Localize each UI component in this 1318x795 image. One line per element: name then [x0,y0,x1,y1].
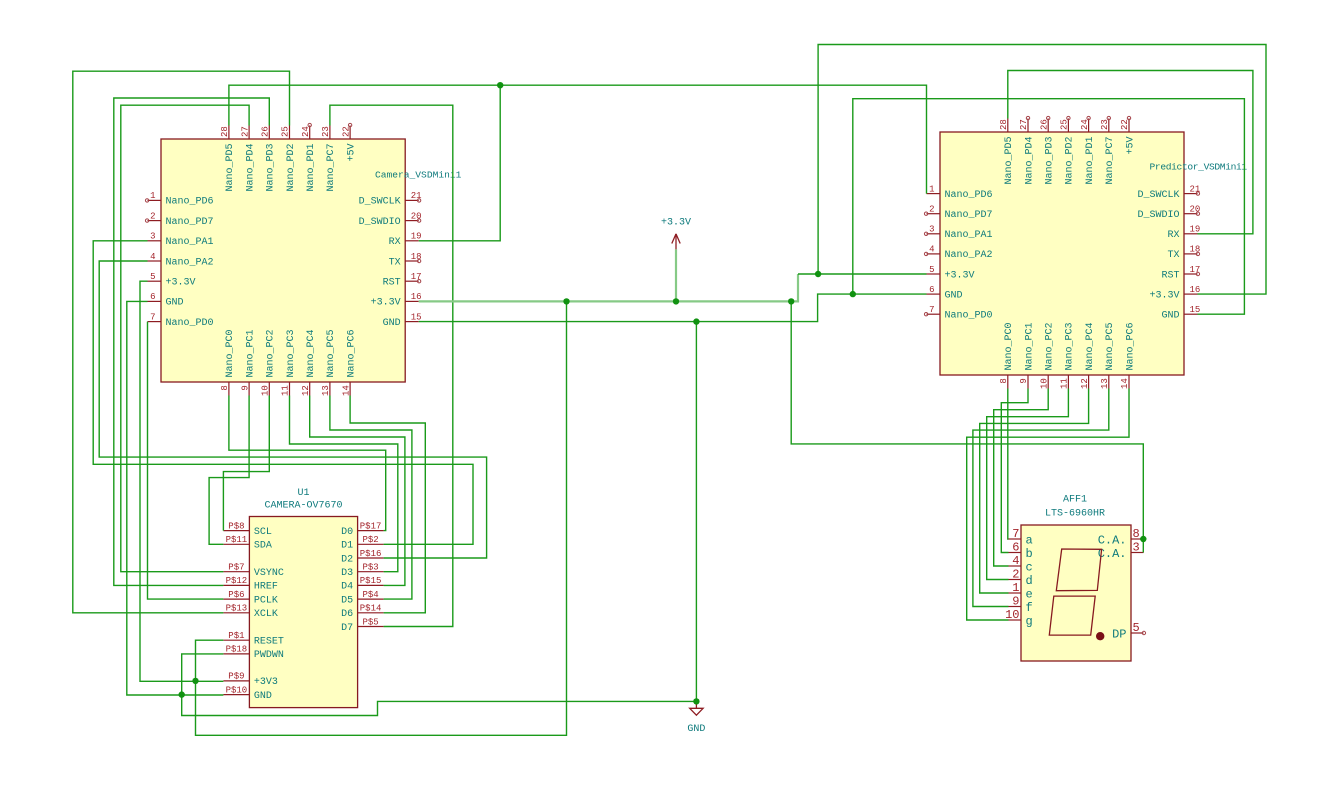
svg-text:25: 25 [1060,119,1070,130]
svg-text:+3.3V: +3.3V [371,298,401,309]
svg-text:3: 3 [929,225,934,235]
svg-text:D_SWDIO: D_SWDIO [359,217,401,228]
svg-text:g: g [1026,614,1033,628]
svg-text:Nano_PD5: Nano_PD5 [225,144,236,192]
svg-text:Nano_PD1: Nano_PD1 [1085,137,1096,185]
svg-text:P$2: P$2 [362,535,378,545]
svg-text:TX: TX [1167,250,1179,261]
svg-text:4: 4 [1012,554,1019,568]
svg-text:18: 18 [1190,245,1201,255]
svg-text:P$3: P$3 [362,563,378,573]
svg-text:Nano_PC0: Nano_PC0 [225,329,236,377]
svg-text:C.A.: C.A. [1098,533,1127,547]
svg-text:TX: TX [389,257,401,268]
svg-text:Nano_PD2: Nano_PD2 [286,144,297,192]
svg-text:8: 8 [999,378,1009,383]
svg-text:Camera_VSDMini1: Camera_VSDMini1 [375,170,462,181]
svg-text:GND: GND [1161,311,1179,322]
svg-text:PWDWN: PWDWN [254,650,284,661]
svg-text:P$5: P$5 [362,617,378,627]
svg-text:Nano_PD5: Nano_PD5 [1004,137,1015,185]
svg-text:RST: RST [383,278,401,289]
svg-text:Predictor_VSDMini1: Predictor_VSDMini1 [1150,162,1248,173]
svg-text:Nano_PA1: Nano_PA1 [166,237,214,248]
svg-text:6: 6 [1012,541,1019,555]
svg-text:1: 1 [929,184,934,194]
svg-text:21: 21 [1190,184,1201,194]
svg-text:Nano_PC6: Nano_PC6 [346,329,357,377]
svg-text:Nano_PC7: Nano_PC7 [326,144,337,192]
svg-text:Nano_PC7: Nano_PC7 [1105,137,1116,185]
svg-text:Nano_PC4: Nano_PC4 [306,329,317,377]
svg-text:Nano_PC2: Nano_PC2 [1045,322,1056,370]
svg-text:7: 7 [929,305,934,315]
svg-text:GND: GND [254,691,272,702]
svg-text:CAMERA-OV7670: CAMERA-OV7670 [264,501,342,512]
svg-text:+3.3V: +3.3V [166,278,196,289]
svg-text:5: 5 [929,265,934,275]
svg-text:AFF1: AFF1 [1063,495,1087,506]
svg-text:D4: D4 [341,582,353,593]
svg-text:P$12: P$12 [226,576,248,586]
svg-text:Nano_PD7: Nano_PD7 [166,217,214,228]
svg-text:+3V3: +3V3 [254,677,278,688]
svg-text:11: 11 [1060,378,1070,389]
svg-text:17: 17 [1190,265,1201,275]
svg-text:PCLK: PCLK [254,595,278,606]
svg-text:Nano_PD0: Nano_PD0 [166,318,214,329]
svg-text:24: 24 [1080,119,1090,130]
svg-text:P$13: P$13 [226,604,248,614]
svg-text:27: 27 [240,126,250,137]
svg-text:1: 1 [1012,581,1019,595]
svg-text:Nano_PD3: Nano_PD3 [266,144,277,192]
svg-text:10: 10 [1039,378,1049,389]
svg-text:P$9: P$9 [228,672,244,682]
svg-text:Nano_PD6: Nano_PD6 [945,190,993,201]
svg-text:12: 12 [301,385,311,396]
svg-text:Nano_PD4: Nano_PD4 [1024,137,1035,185]
svg-text:P$17: P$17 [360,521,382,531]
svg-text:D3: D3 [341,568,353,579]
svg-text:P$4: P$4 [362,590,378,600]
svg-text:D7: D7 [341,623,353,634]
svg-text:+5V: +5V [346,144,357,162]
svg-text:2: 2 [1012,568,1019,582]
svg-text:VSYNC: VSYNC [254,568,284,579]
svg-text:26: 26 [1039,119,1049,130]
svg-text:Nano_PA2: Nano_PA2 [166,257,214,268]
svg-text:5: 5 [1133,621,1140,635]
svg-text:2: 2 [929,205,934,215]
svg-text:RX: RX [1167,230,1179,241]
svg-text:Nano_PD3: Nano_PD3 [1045,137,1056,185]
svg-text:4: 4 [150,252,155,262]
svg-text:4: 4 [929,245,934,255]
svg-text:Nano_PC5: Nano_PC5 [326,329,337,377]
svg-text:D1: D1 [341,541,353,552]
svg-text:23: 23 [321,126,331,137]
svg-text:Nano_PD4: Nano_PD4 [245,144,256,192]
svg-text:b: b [1026,547,1033,561]
svg-text:+3.3V: +3.3V [945,270,975,281]
svg-text:2: 2 [150,211,155,221]
svg-text:28: 28 [220,126,230,137]
svg-text:9: 9 [1019,378,1029,383]
svg-text:D2: D2 [341,554,353,565]
svg-text:P$15: P$15 [360,576,382,586]
svg-text:Nano_PC0: Nano_PC0 [1004,322,1015,370]
svg-text:e: e [1026,587,1033,601]
svg-text:U1: U1 [297,488,309,499]
svg-text:8: 8 [1133,527,1140,541]
svg-text:27: 27 [1019,119,1029,130]
svg-text:+3.3V: +3.3V [1149,290,1179,301]
svg-text:14: 14 [341,385,351,396]
svg-text:GND: GND [687,724,705,735]
svg-text:GND: GND [166,298,184,309]
svg-text:GND: GND [945,290,963,301]
svg-text:24: 24 [301,126,311,137]
svg-text:7: 7 [150,312,155,322]
svg-text:Nano_PA1: Nano_PA1 [945,230,993,241]
svg-text:5: 5 [150,272,155,282]
svg-text:6: 6 [150,292,155,302]
svg-text:LTS-6960HR: LTS-6960HR [1045,508,1105,519]
svg-text:HREF: HREF [254,582,278,593]
svg-text:d: d [1026,574,1033,588]
svg-text:DP: DP [1112,627,1126,641]
svg-text:9: 9 [1012,595,1019,609]
svg-text:9: 9 [240,385,250,390]
svg-text:20: 20 [1190,205,1201,215]
svg-text:Nano_PD2: Nano_PD2 [1065,137,1076,185]
svg-text:Nano_PA2: Nano_PA2 [945,250,993,261]
svg-text:25: 25 [281,126,291,137]
svg-text:Nano_PD1: Nano_PD1 [306,144,317,192]
svg-text:13: 13 [1100,378,1110,389]
svg-text:GND: GND [383,318,401,329]
svg-text:RST: RST [1161,270,1179,281]
svg-text:P$7: P$7 [228,563,244,573]
svg-text:21: 21 [411,191,422,201]
svg-text:P$11: P$11 [226,535,248,545]
svg-text:D0: D0 [341,527,353,538]
svg-text:P$10: P$10 [226,685,248,695]
svg-text:P$1: P$1 [228,631,244,641]
svg-text:D_SWDIO: D_SWDIO [1137,210,1179,221]
svg-text:Nano_PC1: Nano_PC1 [1024,322,1035,370]
svg-text:P$14: P$14 [360,604,382,614]
svg-text:26: 26 [261,126,271,137]
svg-text:7: 7 [1012,527,1019,541]
svg-text:a: a [1026,533,1033,547]
svg-text:8: 8 [220,385,230,390]
svg-text:SCL: SCL [254,527,272,538]
svg-text:RESET: RESET [254,637,284,648]
svg-text:18: 18 [411,252,422,262]
svg-text:c: c [1026,560,1033,574]
svg-text:22: 22 [1120,119,1130,130]
svg-text:Nano_PD0: Nano_PD0 [945,311,993,322]
svg-text:Nano_PC3: Nano_PC3 [1065,322,1076,370]
svg-text:Nano_PC2: Nano_PC2 [266,329,277,377]
svg-text:13: 13 [321,385,331,396]
svg-text:14: 14 [1120,378,1130,389]
svg-text:P$16: P$16 [360,549,382,559]
svg-text:D5: D5 [341,595,353,606]
svg-text:+3.3V: +3.3V [661,218,691,229]
svg-text:17: 17 [411,272,422,282]
svg-text:1: 1 [150,191,155,201]
svg-text:RX: RX [389,237,401,248]
svg-text:28: 28 [999,119,1009,130]
svg-text:Nano_PC6: Nano_PC6 [1125,322,1136,370]
svg-text:D6: D6 [341,609,353,620]
svg-text:P$8: P$8 [228,521,244,531]
svg-text:Nano_PC4: Nano_PC4 [1085,322,1096,370]
svg-text:SDA: SDA [254,541,272,552]
svg-text:Nano_PC5: Nano_PC5 [1105,322,1116,370]
svg-text:6: 6 [929,285,934,295]
svg-text:23: 23 [1100,119,1110,130]
svg-text:Nano_PD6: Nano_PD6 [166,197,214,208]
svg-text:3: 3 [1133,541,1140,555]
svg-text:D_SWCLK: D_SWCLK [1137,190,1179,201]
svg-text:22: 22 [341,126,351,137]
svg-text:12: 12 [1080,378,1090,389]
svg-text:11: 11 [281,385,291,396]
svg-text:D_SWCLK: D_SWCLK [359,197,401,208]
svg-text:Nano_PD7: Nano_PD7 [945,210,993,221]
svg-text:+5V: +5V [1125,137,1136,155]
svg-text:Nano_PC1: Nano_PC1 [245,329,256,377]
svg-text:10: 10 [261,385,271,396]
svg-text:Nano_PC3: Nano_PC3 [286,329,297,377]
svg-text:P$18: P$18 [226,645,248,655]
svg-text:3: 3 [150,232,155,242]
svg-text:XCLK: XCLK [254,609,278,620]
svg-text:f: f [1026,601,1033,615]
svg-text:20: 20 [411,211,422,221]
svg-text:P$6: P$6 [228,590,244,600]
